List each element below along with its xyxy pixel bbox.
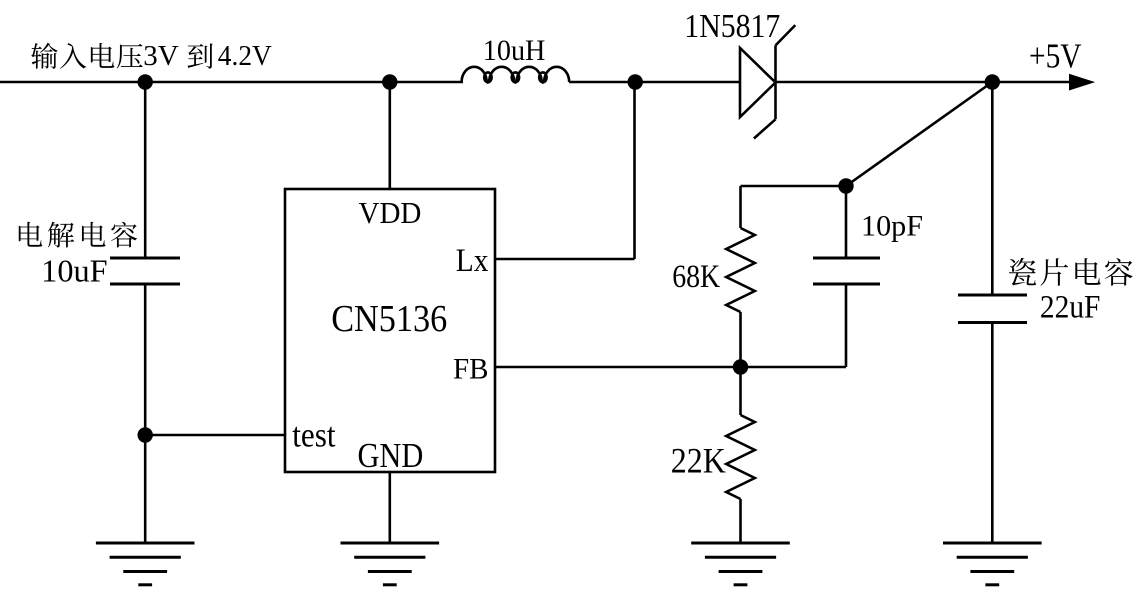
svg-text:3V: 3V: [143, 40, 179, 72]
label 瓷片电容: [1009, 258, 1133, 286]
svg-text:10uH: 10uH: [483, 34, 546, 67]
junction dot: FB node: [733, 359, 748, 374]
junction dot: test node: [138, 427, 153, 442]
resistor R1 68K: [739, 186, 742, 228]
capacitor C1 10uF electrolytic plates: [110, 257, 180, 260]
wire: inductor to diode anode: [569, 81, 740, 84]
svg-text:Lx: Lx: [456, 243, 489, 279]
svg-text:10uF: 10uF: [41, 253, 107, 289]
junction dot: +5V / feedback / C3: [985, 74, 1000, 89]
diode D1 1N5817 (Schottky): [740, 25, 795, 138]
label 电解电容: [19, 222, 137, 248]
junction dot: divider top node: [838, 178, 853, 193]
ground symbol (GND pin): [341, 542, 440, 545]
svg-text:GND: GND: [358, 436, 424, 475]
wire: C1 bottom to test node: [144, 284, 147, 435]
wire: diode cathode to +5V arrow: [776, 81, 1071, 84]
ground symbol (C3): [943, 542, 1042, 545]
svg-text:68K: 68K: [672, 259, 720, 295]
capacitor C2 10pF: [845, 186, 848, 258]
svg-text:22uF: 22uF: [1040, 290, 1101, 326]
svg-text:VDD: VDD: [359, 195, 422, 230]
svg-text:FB: FB: [453, 353, 489, 386]
svg-text:CN5136: CN5136: [331, 298, 447, 340]
wire: diagonal feedback to +5V: [846, 82, 992, 186]
wire: test node down to ground: [144, 435, 147, 543]
wire: input node down to C1: [144, 82, 147, 258]
svg-text:22K: 22K: [671, 441, 726, 481]
wire: switch node vertical: [633, 82, 636, 259]
junction dot: Lx / inductor / diode net: [628, 74, 643, 89]
ground symbol (R2): [691, 542, 790, 545]
wire: GND pin down: [388, 472, 391, 543]
svg-text:test: test: [292, 416, 336, 455]
resistor R2 22K: [739, 367, 742, 415]
wire: test node to test pin: [145, 434, 285, 437]
wire: 68K top horizontal: [741, 185, 847, 188]
wire: VDD drop: [388, 82, 391, 189]
junction dot: input / C1: [138, 74, 153, 89]
svg-text:4.2V: 4.2V: [218, 40, 272, 72]
svg-text:+5V: +5V: [1029, 37, 1082, 76]
wire: C2 bottom corner up: [845, 284, 848, 367]
wire: FB pin horizontal: [495, 366, 846, 369]
arrowhead +5V output: [1070, 74, 1094, 89]
capacitor C3 22uF ceramic: [958, 294, 1027, 297]
wire: +5V node down to C3: [991, 82, 994, 295]
node label: 输入电压3V到4.2V: [31, 40, 272, 72]
ground symbol (C1): [96, 542, 195, 545]
wire: C3 bottom to ground: [991, 323, 994, 544]
wire: Lx pin to switch node: [495, 258, 635, 261]
svg-text:1N5817: 1N5817: [684, 8, 780, 45]
wire: input net from left edge to inductor: [0, 81, 463, 84]
inductor L1 10uH: [462, 67, 570, 82]
junction dot: input / VDD: [382, 74, 397, 89]
svg-text:10pF: 10pF: [861, 210, 923, 243]
IC U1 CN5136: [285, 189, 495, 472]
